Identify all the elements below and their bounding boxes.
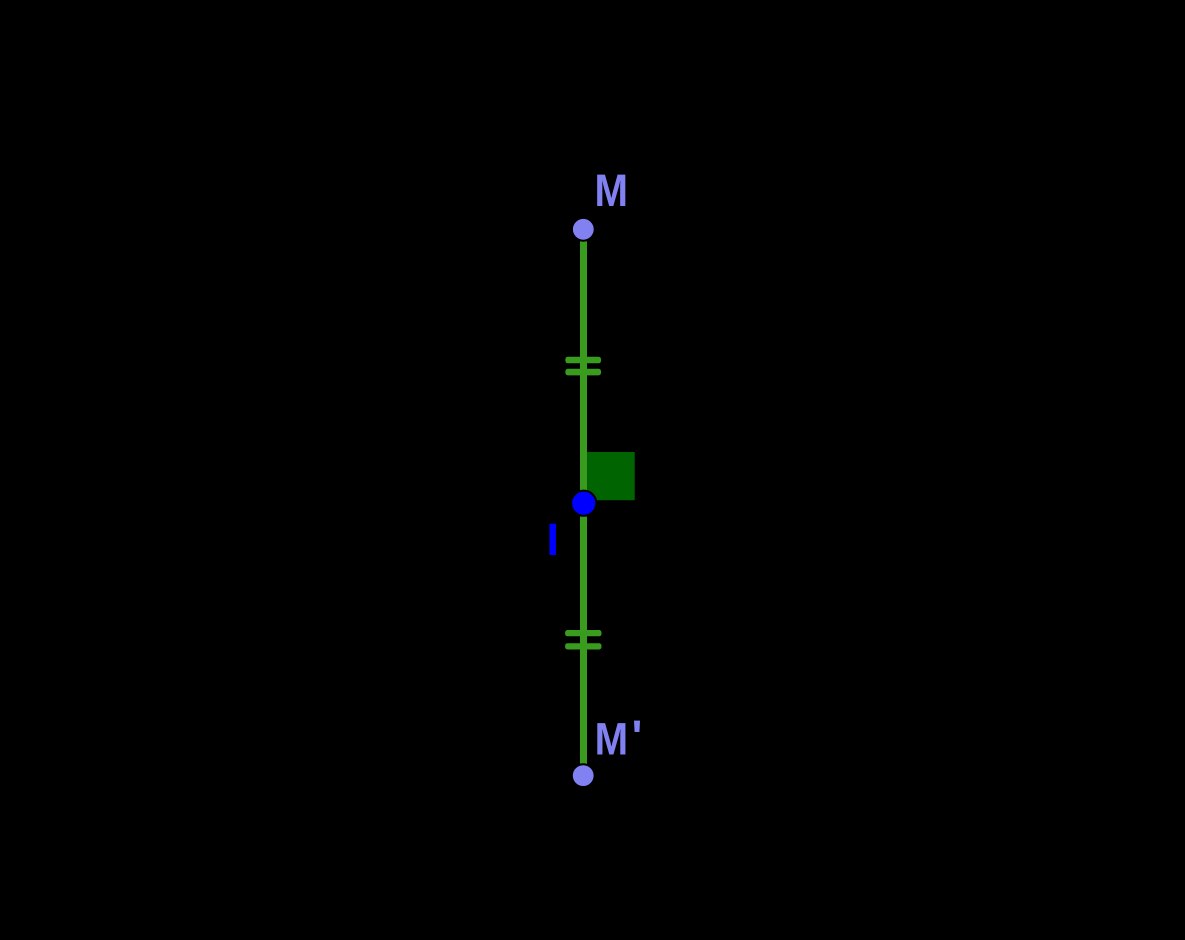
tick mark 2a on segment IM' xyxy=(565,630,601,636)
tick mark 1a on segment MI xyxy=(565,357,601,364)
point I xyxy=(571,491,596,516)
tick mark 2b on segment IM' xyxy=(565,643,601,649)
svg-text:M: M xyxy=(595,165,629,216)
right-angle square at I xyxy=(587,452,635,500)
point M' xyxy=(572,764,595,787)
segment MM' xyxy=(580,229,587,775)
tick mark 1b on segment MI xyxy=(565,369,601,376)
point M xyxy=(572,218,595,241)
svg-text:M: M xyxy=(595,713,629,764)
svg-text:': ' xyxy=(632,711,643,762)
svg-text:I: I xyxy=(547,514,560,565)
